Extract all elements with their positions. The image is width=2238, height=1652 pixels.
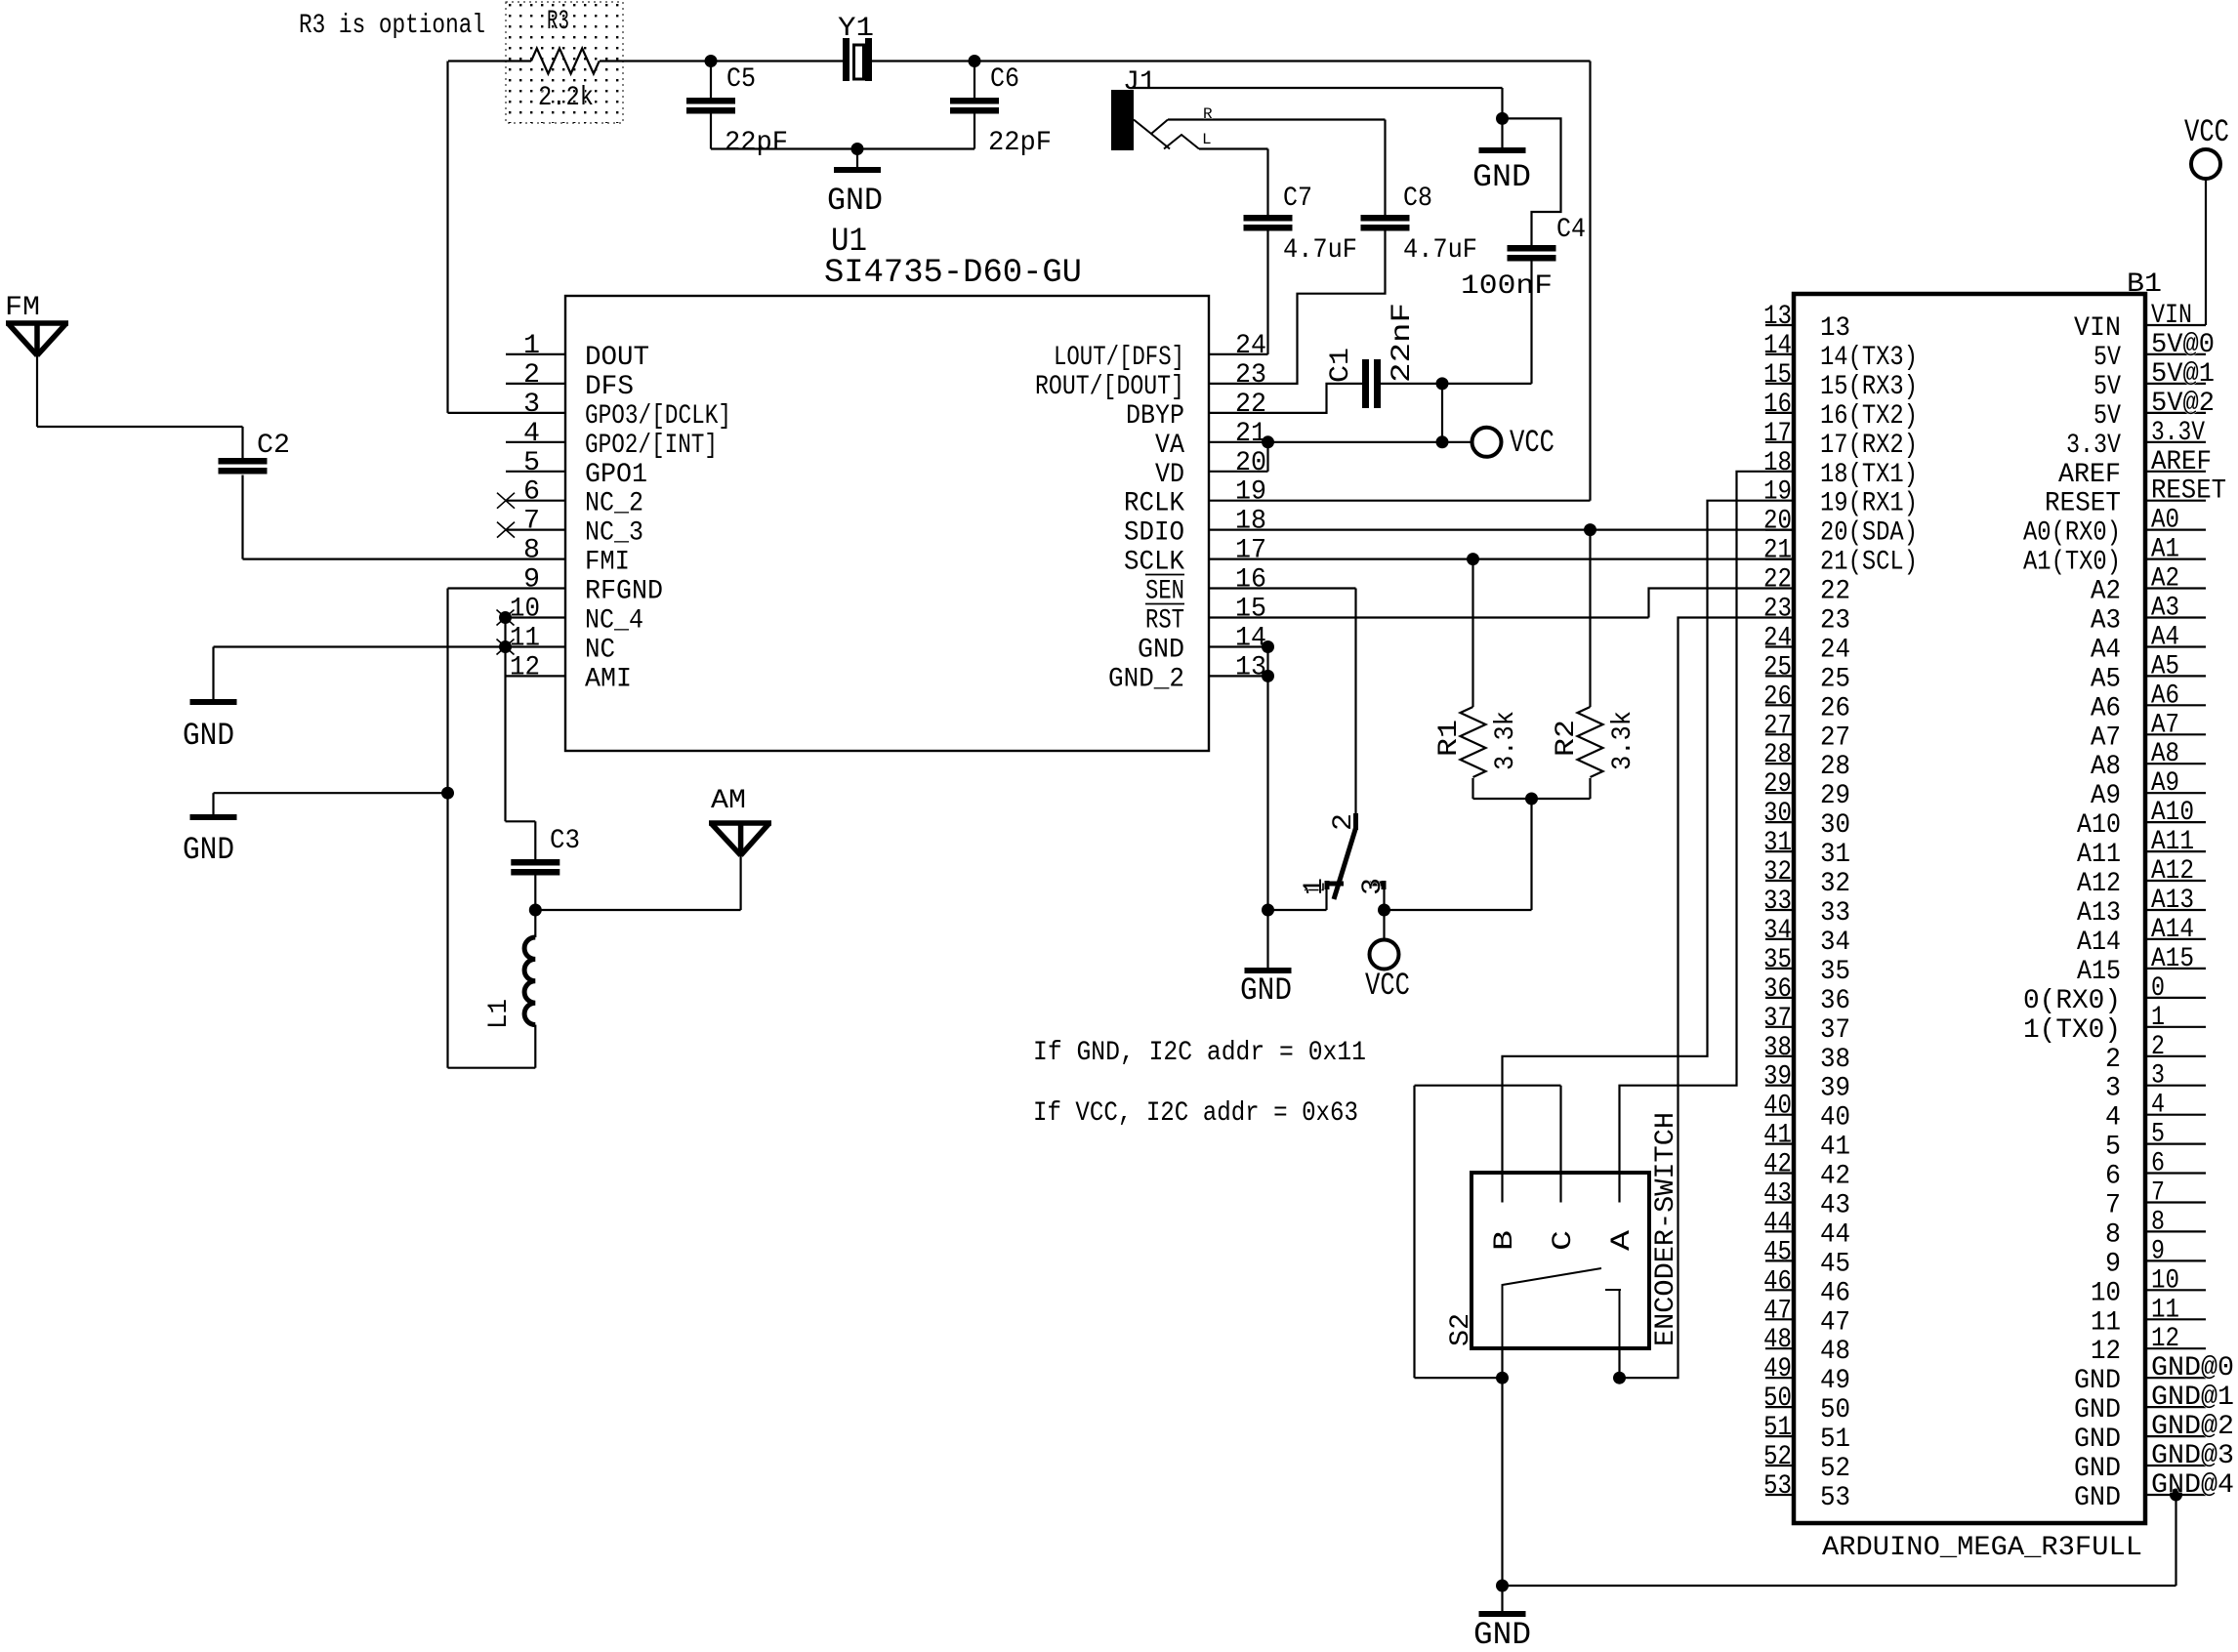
svg-text:3.3V: 3.3V xyxy=(2151,418,2205,448)
wire to VCC xyxy=(1383,910,1385,940)
wire U1 pin 2 stub xyxy=(506,383,565,385)
svg-text:27: 27 xyxy=(1820,723,1850,753)
wire to C3 xyxy=(534,821,536,859)
capacitor C6 xyxy=(950,98,999,114)
svg-text:18: 18 xyxy=(1763,448,1792,478)
wire B1 pin 0 stub xyxy=(2145,997,2206,999)
svg-text:DFS: DFS xyxy=(585,372,634,402)
svg-text:33: 33 xyxy=(1820,898,1850,929)
wire B1 pin 28 stub xyxy=(1765,763,1794,764)
inductor L1 xyxy=(524,937,535,1025)
wire B1 pin A8 stub xyxy=(2145,763,2206,764)
wire B1 pin 32 stub xyxy=(1765,880,1794,882)
wire B1 pin 3.3V stub xyxy=(2145,441,2206,443)
svg-text:6: 6 xyxy=(2151,1149,2165,1179)
svg-text:GND: GND xyxy=(2074,1395,2121,1425)
wire U1 pin 4 stub xyxy=(506,441,565,443)
svg-text:3.3k: 3.3k xyxy=(1608,711,1638,770)
svg-text:GND: GND xyxy=(827,183,883,219)
wire to C5 xyxy=(710,62,712,99)
wire to ground xyxy=(856,149,858,168)
wire Arduino pin 19 to encoder B xyxy=(1503,501,1795,1203)
svg-text:R3 is optional: R3 is optional xyxy=(299,11,485,41)
svg-text:A13: A13 xyxy=(2077,898,2121,929)
wire C5-C6 ground rail xyxy=(711,147,974,149)
svg-text:19(RX1): 19(RX1) xyxy=(1820,489,1918,519)
wire switch pin 3 to pullups xyxy=(1385,909,1532,911)
svg-text:A2: A2 xyxy=(2151,564,2179,595)
junction C1 C4 VA xyxy=(1436,377,1449,390)
svg-text:49: 49 xyxy=(1763,1354,1792,1384)
svg-text:51: 51 xyxy=(1820,1425,1850,1455)
switch lever xyxy=(1334,828,1356,899)
svg-text:A10: A10 xyxy=(2151,798,2194,828)
svg-text:30: 30 xyxy=(1820,810,1850,841)
svg-text:48: 48 xyxy=(1820,1337,1850,1367)
svg-text:40: 40 xyxy=(1763,1092,1792,1122)
svg-text:A3: A3 xyxy=(2091,606,2121,637)
wire B1 pin 29 stub xyxy=(1765,792,1794,794)
wire B1 pin 9 stub xyxy=(2145,1260,2206,1261)
svg-text:52: 52 xyxy=(1763,1442,1792,1472)
wire B1 pin 50 stub xyxy=(1765,1406,1794,1408)
wire B1 pin GND@4 stub xyxy=(2145,1494,2206,1496)
wire B1 pin GND@2 stub xyxy=(2145,1435,2206,1437)
svg-text:C3: C3 xyxy=(550,826,580,856)
svg-text:6: 6 xyxy=(2105,1162,2121,1192)
wire VCC to VIN xyxy=(2205,179,2207,325)
svg-text:10: 10 xyxy=(510,595,540,625)
svg-text:25: 25 xyxy=(1763,652,1792,682)
wire B1 pin A14 stub xyxy=(2145,938,2206,940)
no-connect X pin 6 xyxy=(497,493,515,509)
svg-text:24: 24 xyxy=(1235,331,1266,361)
svg-text:GND: GND xyxy=(2074,1366,2121,1396)
wire B1 pin 45 stub xyxy=(1765,1260,1794,1261)
svg-text:43: 43 xyxy=(1820,1191,1850,1221)
svg-text:A7: A7 xyxy=(2091,723,2121,753)
svg-text:3: 3 xyxy=(2105,1074,2121,1104)
capacitor C3 xyxy=(511,859,559,876)
wire R2 bottom xyxy=(1589,778,1591,799)
svg-text:4: 4 xyxy=(523,419,540,449)
svg-text:R1: R1 xyxy=(1434,720,1465,757)
wire B1 pin 1 stub xyxy=(2145,1026,2206,1028)
svg-text:A13: A13 xyxy=(2151,886,2194,916)
svg-text:50: 50 xyxy=(1763,1384,1792,1414)
resistor R3 dotted highlight box xyxy=(506,2,623,123)
svg-text:42: 42 xyxy=(1820,1162,1850,1192)
wire B1 pin 30 stub xyxy=(1765,821,1794,823)
wire B1 pin 40 stub xyxy=(1765,1114,1794,1116)
wire switch pin 1 to gnd xyxy=(1268,909,1327,911)
wire C2 to FMI xyxy=(241,475,243,559)
wire DBYP to C1 xyxy=(1209,384,1362,413)
svg-text:14: 14 xyxy=(1763,331,1792,361)
svg-text:A15: A15 xyxy=(2077,957,2121,987)
svg-text:19: 19 xyxy=(1235,477,1266,508)
svg-text:16: 16 xyxy=(1235,565,1266,596)
svg-text:If GND, I2C addr = 0x11: If GND, I2C addr = 0x11 xyxy=(1033,1038,1366,1068)
svg-text:AMI: AMI xyxy=(585,664,632,694)
wire B1 pin A6 stub xyxy=(2145,704,2206,706)
no-connect X pin 10 xyxy=(497,610,515,626)
svg-text:2: 2 xyxy=(523,360,540,391)
svg-text:18(TX1): 18(TX1) xyxy=(1820,460,1918,490)
svg-text:C5: C5 xyxy=(726,64,756,95)
junction S2 right xyxy=(1613,1372,1626,1384)
svg-text:GND@2: GND@2 xyxy=(2151,1412,2234,1442)
svg-text:28: 28 xyxy=(1763,740,1792,770)
wire U1 pin 1 stub xyxy=(506,353,565,355)
svg-text:C: C xyxy=(1549,1230,1579,1251)
wire R to C8 xyxy=(1384,120,1386,216)
wire S2 to bottom gnd xyxy=(1501,1378,1503,1586)
wire U1 pin 10 stub xyxy=(506,616,566,618)
wire B1 pin GND@3 stub xyxy=(2145,1465,2206,1466)
wire AMI jog xyxy=(506,820,536,822)
svg-text:24: 24 xyxy=(1820,636,1850,666)
wire SCLK to R1 xyxy=(1471,559,1473,707)
wire B1 pin 25 stub xyxy=(1765,675,1794,677)
svg-text:34: 34 xyxy=(1763,916,1792,946)
wire B1 pin 8 stub xyxy=(2145,1230,2206,1232)
svg-text:11: 11 xyxy=(2091,1307,2121,1338)
svg-text:3.3k: 3.3k xyxy=(1491,711,1521,770)
wire B1 pin 5V@1 stub xyxy=(2145,383,2206,385)
capacitor C7 xyxy=(1244,215,1293,231)
wire GPO3 net vertical xyxy=(446,62,448,413)
wire B1 pin 17 stub xyxy=(1765,441,1794,443)
wire U1 pin 12 stub xyxy=(506,675,566,677)
wire U1 GND_2 pin 13 xyxy=(1209,675,1268,677)
svg-text:47: 47 xyxy=(1763,1296,1792,1326)
svg-text:45: 45 xyxy=(1763,1237,1792,1267)
svg-text:GND: GND xyxy=(2074,1425,2121,1455)
svg-text:3: 3 xyxy=(523,390,540,420)
svg-text:NC: NC xyxy=(585,636,615,666)
svg-text:FMI: FMI xyxy=(585,548,630,578)
wire B1 pin 51 stub xyxy=(1765,1435,1794,1437)
svg-text:5V: 5V xyxy=(2093,401,2121,432)
junction VA node xyxy=(1436,435,1449,448)
wire B1 pin A5 stub xyxy=(2145,675,2206,677)
wire encoder C to gnd net xyxy=(1415,1085,1561,1087)
wire B1 pin 39 stub xyxy=(1765,1085,1794,1087)
svg-text:15(RX3): 15(RX3) xyxy=(1820,372,1918,402)
wire pullup to switch pin 3 xyxy=(1530,799,1532,910)
jack R contact xyxy=(1134,120,1168,135)
wire B1 pin 5V@2 stub xyxy=(2145,412,2206,414)
svg-text:21: 21 xyxy=(1235,419,1266,449)
svg-text:39: 39 xyxy=(1820,1074,1850,1104)
svg-text:42: 42 xyxy=(1763,1150,1792,1180)
wire B1 pin RESET stub xyxy=(2145,500,2206,502)
wire U1 pin 24 stub xyxy=(1209,353,1268,355)
wire gnd to C4 xyxy=(1503,118,1561,245)
svg-text:4.7uF: 4.7uF xyxy=(1283,235,1357,266)
svg-text:41: 41 xyxy=(1763,1121,1792,1151)
svg-text:C8: C8 xyxy=(1403,184,1432,214)
svg-text:50: 50 xyxy=(1820,1395,1850,1425)
svg-text:A: A xyxy=(1607,1230,1637,1251)
svg-text:GND@1: GND@1 xyxy=(2151,1383,2234,1413)
svg-text:A2: A2 xyxy=(2091,577,2121,607)
svg-text:28: 28 xyxy=(1820,752,1850,782)
wire L1 bottom xyxy=(534,1025,536,1068)
wire B1 pin 5V@0 stub xyxy=(2145,353,2206,355)
wire B1 pin 31 stub xyxy=(1765,850,1794,852)
no-connect X pin 11 xyxy=(497,640,515,655)
svg-text:GND: GND xyxy=(2074,1454,2121,1484)
wire B1 pin 20 stub xyxy=(1765,528,1794,530)
svg-text:A0: A0 xyxy=(2151,506,2179,536)
wire L channel xyxy=(1199,147,1268,149)
wire R1 bottom xyxy=(1471,778,1473,799)
svg-text:GND@4: GND@4 xyxy=(2151,1470,2234,1501)
svg-text:13: 13 xyxy=(1235,652,1266,682)
audio jack J1 body xyxy=(1111,90,1134,150)
svg-text:29: 29 xyxy=(1763,769,1792,800)
svg-text:SCLK: SCLK xyxy=(1124,548,1184,578)
svg-text:27: 27 xyxy=(1763,711,1792,741)
svg-text:RESET: RESET xyxy=(2045,489,2121,519)
svg-text:22pF: 22pF xyxy=(725,128,788,158)
wire B1 pin 53 stub xyxy=(1765,1494,1794,1496)
wire to ground symbol xyxy=(1501,1586,1503,1611)
wire RST xyxy=(1209,616,1649,618)
svg-text:S2: S2 xyxy=(1446,1313,1476,1346)
svg-text:34: 34 xyxy=(1820,928,1850,958)
svg-text:5V: 5V xyxy=(2093,343,2121,373)
wire S2 right pin xyxy=(1618,1348,1620,1378)
svg-text:L: L xyxy=(1202,131,1212,148)
wire B1 pin 34 stub xyxy=(1765,938,1794,940)
wire B1 pin A15 stub xyxy=(2145,968,2206,970)
junction RFGND gnd xyxy=(441,787,454,800)
svg-text:C2: C2 xyxy=(257,431,290,461)
svg-text:36: 36 xyxy=(1820,986,1850,1016)
wire B1 pin 5 stub xyxy=(2145,1142,2206,1144)
svg-text:2.2k: 2.2k xyxy=(538,83,594,113)
svg-text:5V: 5V xyxy=(2093,372,2121,402)
wire FMI from C2 xyxy=(243,558,566,559)
svg-text:4: 4 xyxy=(2105,1103,2121,1134)
wire to ground 1 xyxy=(212,647,214,700)
svg-text:20: 20 xyxy=(1235,448,1266,478)
svg-text:4.7uF: 4.7uF xyxy=(1403,235,1477,266)
junction pin 10 xyxy=(499,611,512,624)
svg-text:1(TX0): 1(TX0) xyxy=(2023,1015,2121,1046)
svg-text:5: 5 xyxy=(523,448,540,478)
wire SEN xyxy=(1209,587,1356,589)
svg-text:36: 36 xyxy=(1763,974,1792,1005)
wire B1 pin 7 stub xyxy=(2145,1201,2206,1203)
junction pin 11 xyxy=(499,640,512,653)
Arduino B1 body xyxy=(1794,294,2145,1523)
junction SCLK R1 xyxy=(1467,553,1479,565)
svg-text:10: 10 xyxy=(2091,1278,2121,1308)
svg-text:GPO1: GPO1 xyxy=(585,460,647,490)
svg-text:13: 13 xyxy=(1820,313,1850,344)
svg-text:9: 9 xyxy=(2105,1249,2121,1279)
svg-text:If VCC, I2C addr = 0x63: If VCC, I2C addr = 0x63 xyxy=(1033,1098,1358,1129)
ground below switch xyxy=(1245,968,1292,973)
svg-text:19: 19 xyxy=(1763,477,1792,508)
svg-text:22pF: 22pF xyxy=(988,128,1052,158)
wire B1 pin 52 stub xyxy=(1765,1465,1794,1466)
svg-text:6: 6 xyxy=(523,477,540,508)
wire encoder C pin xyxy=(1559,1086,1561,1203)
wire B1 pin 33 stub xyxy=(1765,909,1794,911)
svg-text:44: 44 xyxy=(1820,1219,1850,1250)
svg-text:VIN: VIN xyxy=(2074,313,2121,344)
junction R1 R2 xyxy=(1525,793,1538,805)
wire C3 to node xyxy=(534,876,536,911)
wire L to C7 xyxy=(1266,149,1268,216)
wire AM antenna stem xyxy=(739,855,741,910)
encoder switch contacts xyxy=(1503,1268,1622,1348)
junction pin 14 xyxy=(1262,640,1274,653)
wire C7 to LOUT xyxy=(1266,231,1268,354)
svg-text:DBYP: DBYP xyxy=(1126,401,1184,432)
svg-text:37: 37 xyxy=(1763,1004,1792,1034)
svg-text:R3: R3 xyxy=(547,7,569,37)
capacitor C5 xyxy=(686,98,735,114)
wire RFGND xyxy=(448,587,566,589)
svg-text:53: 53 xyxy=(1763,1471,1792,1502)
svg-text:NC_4: NC_4 xyxy=(585,606,643,637)
wire C4 to DBYP net xyxy=(1530,262,1532,384)
svg-text:GND: GND xyxy=(1138,636,1184,666)
wire down to VA xyxy=(1441,384,1443,442)
svg-text:51: 51 xyxy=(1763,1413,1792,1443)
svg-text:A10: A10 xyxy=(2077,810,2121,841)
svg-text:A12: A12 xyxy=(2077,869,2121,899)
svg-text:0: 0 xyxy=(2151,973,2165,1004)
svg-text:8: 8 xyxy=(2151,1207,2165,1237)
wire B1 pin A7 stub xyxy=(2145,733,2206,735)
wire R3 to crystal xyxy=(600,60,844,62)
wire switch pin 1 down xyxy=(1325,889,1327,910)
wire B1 pin A11 stub xyxy=(2145,850,2206,852)
wire bottom gnd rail xyxy=(1503,1585,2176,1587)
svg-text:22: 22 xyxy=(1763,565,1792,596)
svg-text:44: 44 xyxy=(1763,1208,1792,1238)
wire to U1 pin 3 xyxy=(448,412,566,414)
svg-text:VCC: VCC xyxy=(2184,114,2229,150)
no-connect X pin 7 xyxy=(497,522,515,538)
svg-text:9: 9 xyxy=(523,565,540,596)
wire B1 pin A1 stub xyxy=(2145,558,2206,559)
svg-text:RCLK: RCLK xyxy=(1124,489,1184,519)
wire B1 pin 48 stub xyxy=(1765,1347,1794,1349)
svg-text:23: 23 xyxy=(1820,606,1850,637)
svg-text:RFGND: RFGND xyxy=(585,577,663,607)
svg-text:26: 26 xyxy=(1820,693,1850,723)
svg-text:7: 7 xyxy=(523,507,540,537)
svg-text:A4: A4 xyxy=(2151,623,2179,653)
svg-text:A8: A8 xyxy=(2091,752,2121,782)
svg-text:23: 23 xyxy=(1235,360,1266,391)
wire B1 pin 27 stub xyxy=(1765,733,1794,735)
wire R channel xyxy=(1168,118,1386,120)
wire crystal to RCLK drop xyxy=(872,60,1591,62)
svg-text:21: 21 xyxy=(1763,536,1792,566)
wire C1 to C4 node xyxy=(1381,383,1532,385)
wire to C6 xyxy=(974,62,975,99)
wire Arduino pin 18 to encoder A xyxy=(1620,472,1795,1203)
wire U1 pin 5 stub xyxy=(506,471,565,473)
power symbol VCC xyxy=(1370,940,1399,970)
svg-text:C1: C1 xyxy=(1326,348,1356,383)
wire NC pins to C3 vertical xyxy=(504,618,506,822)
wire SEN to switch xyxy=(1354,589,1356,814)
FM antenna xyxy=(6,323,68,355)
junction GND@4 xyxy=(2170,1489,2182,1502)
svg-text:SEN: SEN xyxy=(1145,577,1184,607)
wire B1 pin 21 stub xyxy=(1765,558,1794,559)
svg-text:43: 43 xyxy=(1763,1179,1792,1210)
svg-text:L1: L1 xyxy=(484,999,515,1029)
svg-text:35: 35 xyxy=(1820,957,1850,987)
svg-text:14: 14 xyxy=(1235,624,1266,654)
wire U1 VA pin 21 xyxy=(1209,441,1442,443)
wire B1 pin 10 stub xyxy=(2145,1289,2206,1291)
svg-text:ROUT/[DOUT]: ROUT/[DOUT] xyxy=(1035,372,1184,402)
wire jack sleeve to gnd xyxy=(1132,87,1503,89)
svg-text:47: 47 xyxy=(1820,1307,1850,1338)
svg-text:20(SDA): 20(SDA) xyxy=(1820,518,1918,549)
svg-text:A15: A15 xyxy=(2151,944,2194,974)
svg-text:37: 37 xyxy=(1820,1015,1850,1046)
svg-text:9: 9 xyxy=(2151,1236,2165,1266)
junction S2 left xyxy=(1496,1372,1509,1384)
svg-text:NC_2: NC_2 xyxy=(585,489,643,519)
wire B1 pin A3 stub xyxy=(2145,616,2206,618)
svg-text:39: 39 xyxy=(1763,1062,1792,1093)
svg-text:17(RX2): 17(RX2) xyxy=(1820,431,1918,461)
svg-text:A9: A9 xyxy=(2151,768,2179,799)
svg-text:AREF: AREF xyxy=(2151,447,2212,477)
wire to S2 pin xyxy=(1415,1377,1503,1379)
svg-text:VA: VA xyxy=(1155,431,1184,461)
wire FM to C2 xyxy=(37,426,243,428)
wire B1 pin A9 stub xyxy=(2145,792,2206,794)
svg-text:12: 12 xyxy=(2091,1337,2121,1367)
wire C6 to gnd rail xyxy=(974,114,975,149)
svg-text:30: 30 xyxy=(1763,799,1792,829)
svg-text:23: 23 xyxy=(1763,595,1792,625)
junction switch vcc xyxy=(1378,904,1390,917)
svg-text:LOUT/[DFS]: LOUT/[DFS] xyxy=(1054,343,1184,373)
svg-text:RESET: RESET xyxy=(2151,476,2226,507)
svg-text:GND: GND xyxy=(1472,159,1531,195)
svg-text:A12: A12 xyxy=(2151,856,2194,887)
svg-text:38: 38 xyxy=(1763,1033,1792,1063)
wire FM antenna down xyxy=(36,355,38,427)
svg-text:GND: GND xyxy=(1240,972,1292,1009)
wire B1 pin 26 stub xyxy=(1765,704,1794,706)
svg-text:GND@0: GND@0 xyxy=(2151,1353,2234,1384)
wire RCLK vertical xyxy=(1589,62,1591,501)
svg-text:32: 32 xyxy=(1763,857,1792,888)
wire U1 pin 6 stub xyxy=(506,500,565,502)
svg-text:GND: GND xyxy=(183,718,234,754)
svg-text:NC_3: NC_3 xyxy=(585,518,643,549)
wire B1 pin A4 stub xyxy=(2145,645,2206,647)
junction VA VD xyxy=(1262,435,1274,448)
